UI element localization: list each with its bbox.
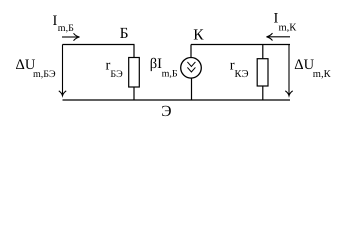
svg-text:m,К: m,К [279,23,298,34]
wire: vertical from node Б down to r_БЭ [133,45,135,58]
wire: below current source to emitter rail [191,78,193,100]
current source βI m,Б (circle with double down chevron) [181,58,202,79]
wire: vertical from node К corner down to current source [190,45,192,58]
resistor r_КЭ (box) [257,59,268,86]
svg-text:I: I [53,13,58,29]
wire: bottom emitter rail [63,99,291,101]
arrow I m,Б (points right) [62,33,80,40]
svg-text:К: К [193,26,204,43]
svg-text:ΔU: ΔU [294,57,314,73]
svg-text:m,Б: m,Б [58,23,74,34]
label ΔU m,К [294,57,331,80]
arrow ΔU m,К (voltage, points down) [285,45,292,96]
resistor r_БЭ (box) [129,58,140,88]
wire: top-left horizontal (input to base) [63,44,135,46]
wire: below r_БЭ to emitter rail [133,87,135,100]
svg-text:m,К: m,К [313,69,332,80]
svg-text:Э: Э [161,103,171,120]
label I m,Б (base current) [53,13,75,34]
arrow ΔU m,БЭ (voltage, points down) [59,45,66,96]
svg-text:Б: Б [120,25,129,42]
label ΔU m,БЭ [16,57,57,80]
svg-text:βI: βI [150,56,162,72]
wire: top-right horizontal (collector rail) [191,44,290,46]
svg-text:БЭ: БЭ [110,69,123,80]
arrow I m,К (points left) [267,33,291,40]
label r_БЭ [106,57,124,80]
label I m,К (collector current) [274,11,298,34]
svg-text:m,Б: m,Б [162,68,178,79]
label r_КЭ [230,57,249,80]
svg-text:КЭ: КЭ [235,69,249,80]
wire: vertical from collector rail down to r_КЭ [262,45,264,59]
svg-text:m,БЭ: m,БЭ [33,69,56,80]
label βI m,Б [150,56,178,79]
wire: below r_КЭ to emitter rail [262,86,264,100]
